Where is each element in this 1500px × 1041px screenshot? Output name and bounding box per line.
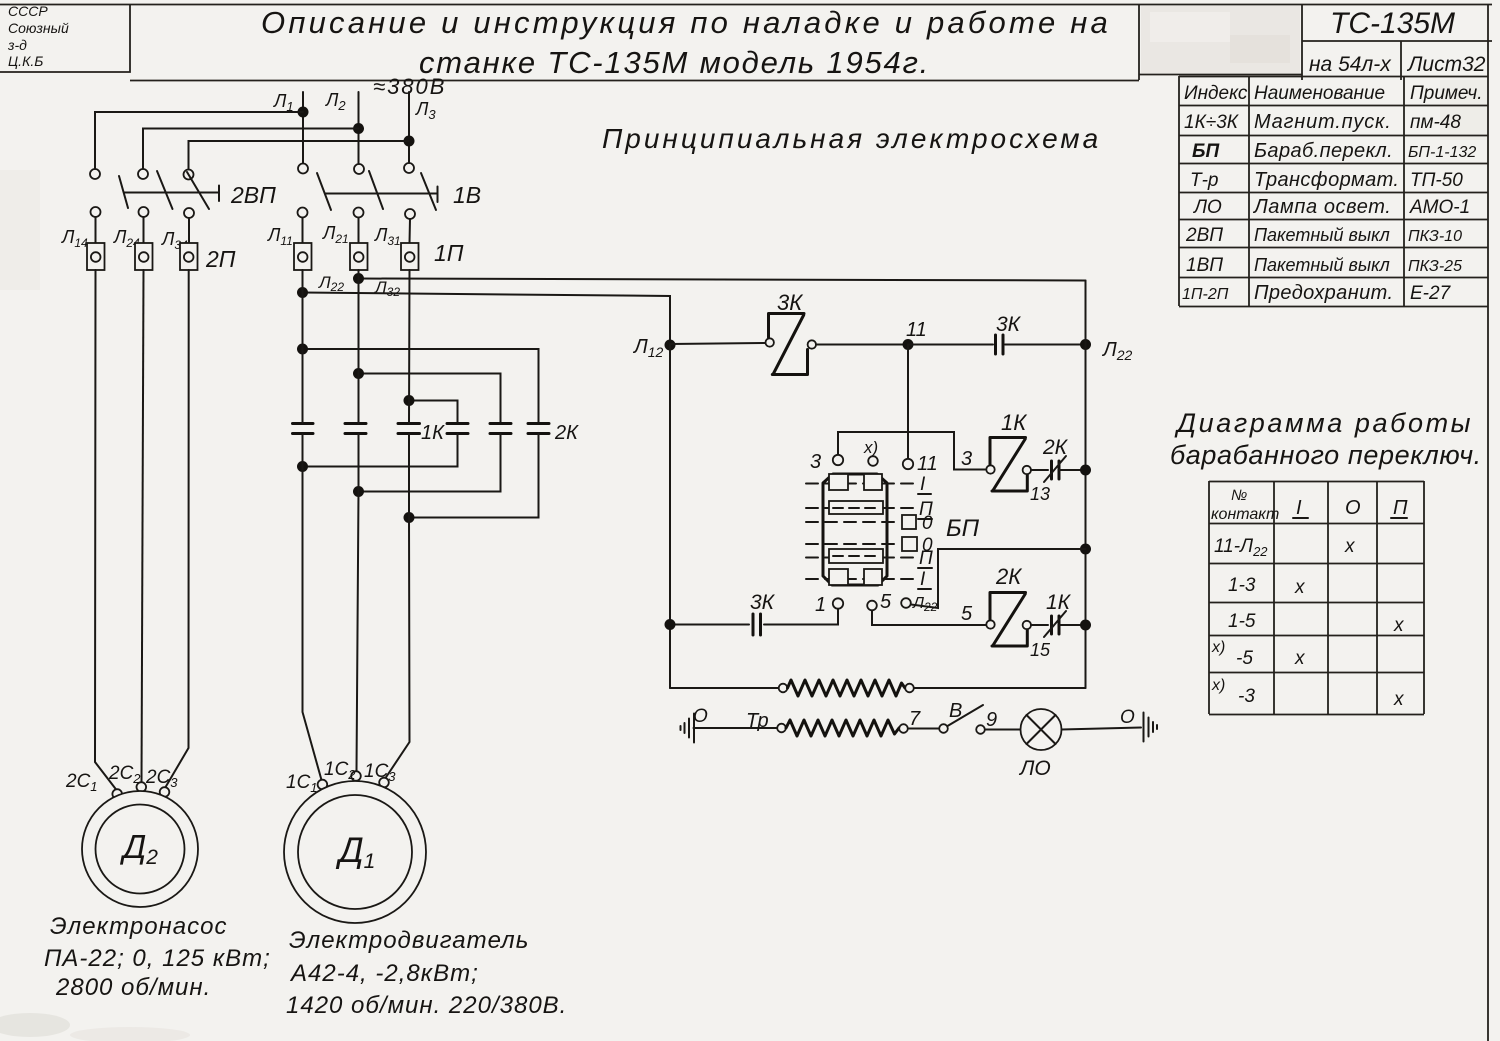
svg-text:барабанного переключ.: барабанного переключ.: [1170, 440, 1482, 470]
contact 1K-c: [398, 424, 420, 434]
svg-text:Л1: Л1: [273, 91, 294, 114]
svg-text:-3: -3: [1238, 686, 1255, 707]
contact 2K-a: [447, 424, 468, 434]
svg-text:3: 3: [810, 451, 821, 473]
svg-text:0: 0: [922, 513, 933, 534]
stamp box СССР: [0, 4, 130, 72]
wire branch L1 to 2VP: [95, 112, 303, 169]
svg-text:9: 9: [986, 709, 997, 731]
svg-text:Предохранит.: Предохранит.: [1254, 282, 1393, 304]
schematic title: [602, 123, 1101, 154]
wire L32 top link: [404, 395, 458, 423]
svg-text:Л14: Л14: [61, 227, 88, 250]
transformer Tr secondary: [746, 708, 921, 736]
svg-text:3К: 3К: [996, 313, 1022, 336]
drum terminal L22: [901, 595, 937, 614]
svg-text:1П-2П: 1П-2П: [1182, 286, 1229, 303]
drum terminal 3: [810, 451, 843, 473]
wire feeder 1C2: [357, 492, 359, 772]
svg-text:5: 5: [961, 603, 973, 625]
net label 380V: [373, 74, 446, 99]
switch V: [939, 700, 997, 734]
wire drum3 to 1K: [838, 432, 986, 470]
svg-text:Е-27: Е-27: [1410, 283, 1452, 304]
contactor contact 2K (NO): [961, 564, 1051, 660]
svg-text:х: х: [1294, 577, 1306, 598]
node L21: [322, 223, 349, 246]
wire branch L2 to 2VP: [143, 129, 359, 170]
row line O1: [806, 521, 900, 523]
terminal 1C2: [324, 759, 361, 782]
svg-text:Ц.К.Б: Ц.К.Б: [8, 53, 43, 69]
node L11: [267, 225, 293, 248]
svg-text:1-5: 1-5: [1228, 611, 1256, 632]
svg-text:2К: 2К: [1042, 436, 1069, 459]
wire node11 to 3K NC: [908, 344, 993, 346]
row label II lower: [918, 548, 933, 569]
node L22 label: [318, 273, 344, 294]
roller slot lower: [829, 549, 883, 563]
svg-text:Наименование: Наименование: [1254, 83, 1385, 104]
wire feeder 2C3: [165, 270, 189, 788]
wire L22 branch to right rail: [353, 273, 1086, 284]
svg-text:О: О: [1345, 497, 1361, 519]
row label I: [918, 474, 931, 495]
wire 2KNC to rail: [1060, 465, 1091, 476]
row line I: [806, 483, 916, 485]
svg-text:станке ТС-135М модель 1954г.: станке ТС-135М модель 1954г.: [419, 45, 930, 80]
contactor contact 3K (NO): [766, 290, 817, 375]
svg-text:1К: 1К: [1001, 410, 1027, 435]
svg-text:Л31: Л31: [374, 225, 401, 248]
svg-text:1С2: 1С2: [324, 759, 356, 782]
finger contacts bottom: [829, 569, 882, 585]
node L2: [325, 90, 346, 113]
svg-text:Описание и инструкция по нала: Описание и инструкция по наладке и работ…: [261, 5, 1111, 40]
row label II: [918, 499, 933, 520]
svg-text:х: х: [1393, 689, 1405, 710]
wire feeder 1C3: [386, 518, 410, 779]
label 2P: [205, 246, 236, 272]
svg-text:2С3: 2С3: [145, 767, 178, 790]
wire left rail: [669, 345, 671, 688]
COMPONENT TABLE: [1179, 76, 1488, 307]
ТС-135М box: [1302, 40, 1492, 42]
label 1P: [434, 240, 464, 266]
wire 9 to lamp: [985, 729, 1020, 731]
svg-text:3К: 3К: [750, 591, 776, 614]
svg-text:2800 об/мин.: 2800 об/мин.: [55, 974, 211, 1001]
svg-text:Магнит.пуск.: Магнит.пуск.: [1254, 111, 1392, 133]
fuse 2P-c: [180, 243, 198, 270]
svg-text:Электродвигатель: Электродвигатель: [289, 927, 529, 954]
wire L12 top link: [297, 344, 539, 424]
svg-text:1С1: 1С1: [286, 772, 318, 795]
label motor text: [286, 927, 567, 1019]
fuse 2P-a: [87, 243, 105, 270]
terminal 1C1: [286, 772, 327, 795]
svg-text:В: В: [949, 700, 962, 722]
svg-text:Л22: Л22: [1101, 339, 1133, 363]
title block: [130, 80, 1139, 82]
wire lamp to ground: [1062, 707, 1142, 730]
svg-text:П: П: [919, 548, 933, 569]
drum terminal 5: [867, 591, 892, 613]
wire feeder 1C1: [303, 467, 322, 781]
svg-text:11: 11: [906, 319, 927, 341]
svg-text:Л2: Л2: [325, 90, 346, 113]
label pump text: [44, 913, 271, 1001]
wire branch L3 to 2VP: [189, 141, 410, 169]
svg-text:7: 7: [909, 708, 921, 730]
svg-text:1К÷3К: 1К÷3К: [1184, 112, 1240, 133]
wire ground to Tr: [694, 727, 778, 729]
svg-text:2ВП: 2ВП: [1185, 225, 1223, 246]
row label O2: [922, 535, 933, 556]
row line O2: [806, 543, 900, 545]
svg-text:АМО-1: АМО-1: [1409, 197, 1470, 218]
svg-text:О: О: [693, 706, 708, 727]
svg-text:Пакетный выкл: Пакетный выкл: [1254, 225, 1390, 245]
svg-text:2К: 2К: [995, 564, 1022, 589]
svg-text:Лист32: Лист32: [1406, 53, 1486, 76]
node L31: [374, 225, 401, 248]
svg-text:на 54л-х: на 54л-х: [1309, 53, 1392, 76]
svg-text:Л21: Л21: [322, 223, 349, 246]
wire rail to drum L22: [911, 544, 1091, 609]
row label O1: [922, 513, 933, 534]
svg-text:Диаграмма работы: Диаграмма работы: [1174, 408, 1473, 438]
svg-text:БП: БП: [946, 515, 980, 542]
node L1: [273, 91, 294, 114]
svg-text:15: 15: [1030, 640, 1051, 660]
svg-text:2П: 2П: [205, 246, 236, 272]
wire L22 vertical through 1K-b: [358, 270, 360, 492]
svg-text:х): х): [1211, 639, 1225, 656]
svg-text:2С1: 2С1: [65, 771, 98, 794]
motor D2: [82, 791, 198, 907]
row label I lower: [918, 569, 931, 590]
ground right: [1144, 713, 1158, 742]
svg-text:Пакетный выкл: Пакетный выкл: [1254, 255, 1390, 275]
svg-text:Т-р: Т-р: [1190, 170, 1219, 191]
svg-text:Л12: Л12: [632, 336, 664, 360]
CAP BANK: [293, 270, 580, 523]
svg-text:з-д: з-д: [7, 37, 27, 53]
wire 3K NC to rail: [1005, 339, 1091, 350]
svg-text:Л3: Л3: [415, 99, 436, 122]
contact 2K-b: [490, 424, 511, 434]
contact 1K-a: [293, 424, 314, 434]
svg-text:ПКЗ-10: ПКЗ-10: [1408, 228, 1462, 245]
svg-text:1К: 1К: [421, 422, 445, 444]
contact 3K NC lower: [750, 591, 776, 635]
wire 1KNC to rail: [1060, 620, 1091, 631]
svg-text:I: I: [1296, 497, 1302, 519]
svg-text:2ВП: 2ВП: [230, 182, 276, 208]
row line II lower: [806, 557, 916, 559]
svg-text:Индекс: Индекс: [1184, 83, 1248, 104]
svg-text:ПА-22; 0, 125 кВт;: ПА-22; 0, 125 кВт;: [44, 945, 271, 972]
wire rail-left to drum1: [665, 619, 750, 630]
svg-text:Л22: Л22: [912, 595, 938, 614]
node L32 label: [374, 278, 400, 299]
wire 1V to fuses: [303, 218, 411, 244]
CONTROL: [632, 281, 1133, 697]
wire drum5 to 2K: [872, 611, 986, 625]
svg-text:пм-48: пм-48: [1410, 112, 1461, 133]
svg-text:2С2: 2С2: [108, 763, 141, 786]
POWER SECTION: [61, 74, 1101, 345]
svg-text:СССР: СССР: [8, 3, 48, 19]
svg-text:ТС-135М: ТС-135М: [1330, 7, 1455, 40]
node L3: [415, 99, 436, 122]
svg-text:х: х: [1294, 648, 1306, 669]
svg-text:контакт: контакт: [1211, 506, 1279, 523]
HEADER: [0, 3, 1492, 81]
wire 3K to node 11: [816, 344, 903, 346]
svg-text:БП-1-132: БП-1-132: [1408, 144, 1476, 161]
svg-text:Л22: Л22: [318, 273, 344, 294]
motor D1: [284, 781, 426, 923]
svg-text:1П: 1П: [434, 240, 464, 266]
svg-text:3: 3: [961, 448, 972, 470]
svg-text:ЛО: ЛО: [1018, 757, 1051, 780]
wire 2VP to fuses: [96, 217, 190, 243]
node 11: [903, 319, 927, 350]
drum terminal x): [863, 438, 878, 466]
wire phase L2 drop: [353, 92, 364, 163]
svg-text:Принципиальная электросхема: Принципиальная электросхема: [602, 123, 1101, 154]
wire L32 bottom link: [404, 434, 539, 524]
wire L32 vertical through 1K-c: [408, 270, 411, 518]
svg-text:Тр: Тр: [746, 710, 769, 732]
wire 7 to switch V: [908, 728, 939, 730]
fuse 1P-c: [401, 243, 419, 270]
wire 3KNC to drum terminal 1: [764, 609, 838, 625]
fuse 1P-a: [294, 243, 312, 270]
svg-text:11-Л22: 11-Л22: [1214, 536, 1268, 559]
svg-text:Электронасос: Электронасос: [50, 913, 227, 940]
label 1K: [421, 422, 445, 444]
wire L22 top link: [353, 368, 501, 423]
contact 2K-c: [528, 424, 549, 434]
svg-text:Бараб.перекл.: Бараб.перекл.: [1254, 140, 1393, 162]
svg-text:1С3: 1С3: [364, 761, 396, 784]
contact 3K NC: [996, 313, 1022, 354]
svg-text:х): х): [1211, 677, 1225, 694]
svg-text:2К: 2К: [554, 422, 579, 444]
node L24: [113, 227, 140, 250]
svg-text:1К: 1К: [1046, 591, 1072, 614]
side contacts O: [902, 515, 917, 551]
wire feeder 2C2: [142, 270, 144, 782]
contact 1K NC breaking: [1031, 591, 1072, 637]
svg-text:№: №: [1231, 487, 1247, 504]
contact 2K NC breaking: [1031, 436, 1069, 482]
terminal 2C3: [145, 767, 178, 797]
switch 1V: [298, 163, 482, 219]
fuse 1P-b: [350, 243, 368, 270]
wire L12 branch to control: [297, 287, 670, 345]
svg-text:3К: 3К: [777, 290, 803, 315]
svg-text:х): х): [863, 438, 878, 457]
DIAGRAM TABLE: [1170, 408, 1482, 715]
node L12 control: [632, 336, 676, 360]
svg-text:ТП-50: ТП-50: [1410, 170, 1463, 191]
label BP: [946, 515, 980, 542]
wire L12 to 3K: [670, 343, 765, 344]
roller slot upper: [829, 501, 883, 514]
svg-text:О: О: [1120, 707, 1135, 728]
fuse 2P-b: [135, 243, 153, 270]
transformer Tr primary: [670, 680, 1086, 696]
svg-text:х: х: [1393, 615, 1405, 636]
svg-text:1В: 1В: [453, 182, 481, 208]
svg-text:-5: -5: [1236, 648, 1253, 669]
drum switch BP body: [823, 474, 887, 585]
svg-text:13: 13: [1030, 484, 1050, 504]
wire right rail: [1085, 281, 1087, 689]
svg-text:А42-4, -2,8кВт;: А42-4, -2,8кВт;: [289, 960, 479, 987]
svg-text:1ВП: 1ВП: [1186, 255, 1223, 276]
svg-text:Л32: Л32: [374, 278, 400, 299]
svg-text:I: I: [920, 569, 926, 590]
svg-text:I: I: [920, 474, 926, 495]
wire phase L1 drop: [298, 92, 309, 163]
node L34: [161, 229, 188, 252]
svg-text:11: 11: [917, 453, 938, 475]
DRUM: [806, 438, 980, 616]
lamp LO: [1018, 709, 1062, 780]
svg-text:Л11: Л11: [267, 225, 293, 248]
row line I lower: [806, 578, 916, 580]
ground left: [681, 706, 709, 743]
LAMP: [681, 700, 1158, 780]
svg-text:1-3: 1-3: [1228, 575, 1256, 596]
svg-text:х: х: [1344, 536, 1356, 557]
finger contacts top: [829, 474, 882, 490]
svg-text:1: 1: [815, 594, 826, 616]
drum terminal 1: [815, 594, 843, 616]
terminal 2C2: [108, 763, 146, 792]
svg-text:1420 об/мин. 220/380В.: 1420 об/мин. 220/380В.: [286, 992, 567, 1019]
svg-text:ЛО: ЛО: [1192, 197, 1222, 218]
terminal 2C1: [65, 771, 122, 799]
terminal 1C3: [364, 761, 396, 787]
svg-text:Союзный: Союзный: [8, 20, 69, 36]
svg-text:БП: БП: [1192, 141, 1219, 162]
wire L12 vertical through 1K-a: [302, 270, 304, 467]
wire phase L3 drop: [404, 92, 415, 163]
contactor contact 1K (NO): [986, 410, 1050, 504]
row line II: [806, 507, 916, 509]
drum terminal 11: [903, 453, 938, 475]
wire feeder 2C1: [95, 270, 117, 790]
contact 1K-b: [345, 424, 366, 434]
node L22 rail label: [1101, 339, 1133, 363]
svg-text:ПКЗ-25: ПКЗ-25: [1408, 258, 1462, 275]
svg-text:Лампа освет.: Лампа освет.: [1252, 196, 1391, 218]
MOTORS: [44, 270, 567, 1019]
label 2K: [554, 422, 579, 444]
svg-text:5: 5: [880, 591, 892, 613]
wire node11 down to drum: [907, 345, 909, 459]
svg-text:Примеч.: Примеч.: [1410, 83, 1483, 104]
wire L12 bottom link: [297, 434, 458, 473]
wire L22 bottom link: [353, 434, 501, 498]
svg-text:П: П: [1393, 497, 1408, 519]
switch 2VP: [90, 169, 276, 218]
svg-text:Трансформат.: Трансформат.: [1254, 169, 1399, 191]
node L14: [61, 227, 88, 250]
